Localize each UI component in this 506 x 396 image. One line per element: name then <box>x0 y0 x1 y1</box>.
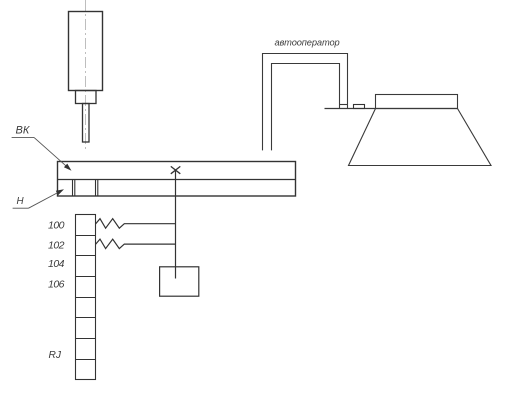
divider pair 2 <box>96 180 98 196</box>
label 100 <box>48 219 65 231</box>
X marker <box>171 166 181 173</box>
wire from X down to box <box>175 170 177 278</box>
divider pair 1 <box>73 180 75 196</box>
svg-text:104: 104 <box>48 258 65 270</box>
svg-text:106: 106 <box>48 279 65 291</box>
gantry outer outline <box>263 54 348 151</box>
block on rail <box>354 105 365 109</box>
bar outer <box>58 162 296 197</box>
resistor zigzag 2 <box>96 239 176 249</box>
svg-text:Н: Н <box>17 196 25 207</box>
bar middle line <box>58 179 296 181</box>
gantry foot line <box>340 104 348 106</box>
ladder column <box>76 215 96 380</box>
svg-text:ВК: ВК <box>16 125 30 137</box>
rail line <box>325 108 458 110</box>
label H <box>17 196 25 207</box>
svg-text:RJ: RJ <box>49 350 62 361</box>
rod <box>83 104 90 143</box>
hood top rect <box>376 95 458 109</box>
label RJ <box>49 350 62 361</box>
gantry inner outline <box>272 64 340 151</box>
cylinder step <box>76 91 97 104</box>
svg-text:автооператор: автооператор <box>275 38 340 48</box>
centerline of spindle <box>85 0 87 152</box>
leader BK <box>12 137 72 170</box>
leader H <box>13 189 64 208</box>
svg-text:100: 100 <box>48 219 65 231</box>
cylinder body <box>69 12 103 91</box>
label автооператор <box>275 38 340 48</box>
label BK <box>16 125 30 137</box>
hood trapezoid <box>349 109 492 166</box>
box <box>160 267 199 296</box>
label 104 <box>48 258 65 270</box>
label 106 <box>48 279 65 291</box>
resistor zigzag 1 <box>96 219 176 229</box>
svg-text:102: 102 <box>48 239 65 251</box>
label 102 <box>48 239 65 251</box>
